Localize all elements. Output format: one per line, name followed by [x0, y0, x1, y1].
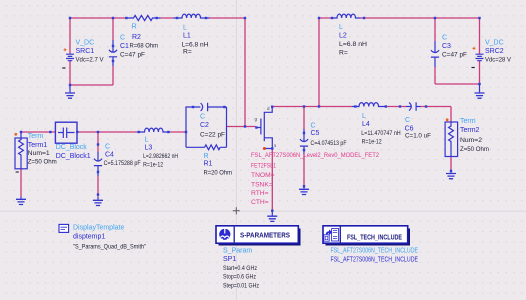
capacitor C4 — [94, 152, 102, 176]
svg-text:R=: R= — [339, 49, 348, 56]
SRC1 minus mark — [62, 67, 65, 69]
Term1 minus mark — [16, 171, 19, 173]
wire term1 bottom stem — [20, 169, 22, 197]
FSL_TECH_INCLUDE box — [323, 226, 410, 246]
svg-text:C=22 pF: C=22 pF — [200, 132, 225, 139]
svg-text:DisplayTemplate: DisplayTemplate — [73, 225, 124, 232]
inductor L1 — [174, 14, 210, 18]
svg-text:Term1: Term1 — [28, 142, 48, 149]
wire top-right rail — [319, 17, 480, 19]
wire SRC2 vertical — [479, 18, 481, 84]
svg-text:Z=50 Ohm: Z=50 Ohm — [460, 146, 489, 153]
DisplayTemplate icon — [59, 224, 69, 232]
svg-text:L=6.8 nH: L=6.8 nH — [339, 41, 367, 48]
svg-text:CTH=: CTH= — [251, 199, 269, 206]
svg-text:Vdc=28 V: Vdc=28 V — [485, 57, 511, 64]
capacitor C6 — [406, 102, 421, 111]
svg-text:R2: R2 — [132, 34, 141, 41]
resistor R2 — [126, 15, 161, 20]
svg-text:R=20 Ohm: R=20 Ohm — [204, 170, 233, 177]
S-PARAMETERS controller box — [216, 226, 301, 246]
wire C1 top stem — [112, 18, 114, 40]
wire top-left rail — [70, 17, 245, 19]
svg-text:R=1e-12: R=1e-12 — [362, 138, 382, 145]
svg-text:FET2FSL1: FET2FSL1 — [251, 163, 276, 170]
svg-text:C5: C5 — [311, 130, 320, 137]
svg-text:R=68 Ohm: R=68 Ohm — [130, 42, 159, 49]
svg-text:L=6.8 nH: L=6.8 nH — [182, 42, 209, 49]
ground C4 — [97, 197, 99, 200]
Term1 port — [15, 138, 27, 169]
wire input line — [21, 131, 186, 133]
capacitor C2 — [201, 103, 208, 112]
wire bias bottom left — [70, 66, 113, 85]
wire C3 stems — [434, 18, 436, 84]
svg-text:Num=1: Num=1 — [28, 150, 50, 157]
svg-text:C=1.0 uF: C=1.0 uF — [405, 133, 431, 140]
svg-text:FSL_AFT27S006N_TECH_INCLUDE: FSL_AFT27S006N_TECH_INCLUDE — [331, 257, 419, 264]
svg-text:RTH=: RTH= — [251, 190, 269, 197]
svg-text:L: L — [362, 113, 366, 120]
V_DC source SRC1 battery — [66, 54, 74, 61]
ground SRC1 — [69, 85, 71, 92]
svg-text:R=: R= — [183, 49, 192, 56]
SRC1 plus mark — [64, 48, 67, 51]
svg-text:Term2: Term2 — [460, 127, 480, 134]
svg-text:S-PARAMETERS: S-PARAMETERS — [240, 231, 290, 240]
SRC2 plus mark — [473, 47, 476, 50]
svg-text:R: R — [132, 24, 137, 31]
svg-text:C=47 pF: C=47 pF — [442, 52, 467, 59]
RC feedback frame — [186, 107, 227, 147]
V_DC source SRC2 battery — [476, 54, 484, 61]
svg-text:R=1e-12: R=1e-12 — [143, 162, 163, 169]
wire C5 stems — [303, 107, 305, 187]
svg-text:DC_Block1: DC_Block1 — [56, 153, 91, 160]
svg-text:DC_Block: DC_Block — [56, 144, 88, 151]
svg-text:C: C — [200, 114, 205, 121]
Term2 port — [445, 122, 458, 157]
svg-text:L3: L3 — [145, 145, 153, 152]
svg-text:Num=2: Num=2 — [460, 137, 482, 144]
svg-text:L=2.982662 nH: L=2.982662 nH — [143, 153, 178, 160]
inductor L3 — [137, 128, 170, 132]
svg-text:Stop=0.6 GHz: Stop=0.6 GHz — [223, 274, 257, 281]
svg-text:C4: C4 — [105, 151, 114, 158]
svg-text:TNOM=: TNOM= — [251, 172, 275, 179]
svg-text:V_DC: V_DC — [485, 40, 504, 47]
svg-text:Start=0.4 GHz: Start=0.4 GHz — [223, 265, 258, 272]
wire FET source down — [271, 149, 273, 211]
DC_Block DC_Block1 — [55, 122, 77, 143]
svg-text:C3: C3 — [442, 43, 451, 50]
svg-text:C: C — [311, 123, 316, 130]
svg-text:C: C — [105, 143, 110, 150]
svg-text:FSL_AFT27S006N_Level2_Rev0_MOD: FSL_AFT27S006N_Level2_Rev0_MODEL_FET2 — [251, 152, 379, 159]
wire drain feed vertical — [318, 18, 320, 107]
wire bias bottom right — [435, 83, 480, 85]
wire drain line — [272, 107, 451, 123]
svg-text:SRC1: SRC1 — [76, 48, 95, 55]
svg-text:Term: Term — [28, 133, 44, 140]
svg-text:Vdc=2.7 V: Vdc=2.7 V — [76, 57, 104, 64]
svg-text:L1: L1 — [183, 33, 191, 40]
svg-text:SP1: SP1 — [223, 256, 236, 263]
svg-text:FSL_AFT27S006N_TECH_INCLUDE: FSL_AFT27S006N_TECH_INCLUDE — [331, 248, 419, 255]
inductor L4 — [352, 103, 386, 107]
svg-text:C: C — [120, 35, 125, 42]
svg-text:C: C — [442, 35, 447, 42]
svg-text:L4: L4 — [362, 121, 370, 128]
svg-text:C2: C2 — [200, 122, 209, 129]
capacitor C5 — [300, 129, 308, 154]
wire C4 stems — [97, 132, 99, 197]
inductor L2 — [332, 14, 361, 18]
svg-text:TSNK=: TSNK= — [251, 181, 273, 188]
ground SRC2 — [479, 84, 481, 92]
capacitor C1 — [109, 40, 117, 66]
svg-text:L=11.470747 nH: L=11.470747 nH — [361, 130, 401, 137]
svg-text:Term: Term — [460, 118, 476, 125]
svg-text:V_DC: V_DC — [76, 40, 95, 47]
svg-text:L2: L2 — [339, 33, 347, 40]
svg-text:S_Param: S_Param — [223, 248, 252, 255]
svg-text:Step=0.01 GHz: Step=0.01 GHz — [223, 283, 260, 290]
ground FET source — [271, 211, 273, 216]
FET pin 1 red dot — [263, 147, 266, 150]
svg-text:"S_Params_Quad_dB_Smith": "S_Params_Quad_dB_Smith" — [73, 244, 147, 251]
svg-text:FSL_TECH_INCLUDE: FSL_TECH_INCLUDE — [347, 235, 402, 242]
SRC2 minus mark — [472, 67, 475, 69]
svg-text:C1: C1 — [120, 43, 129, 50]
ground C5 — [303, 186, 305, 188]
svg-text:R1: R1 — [204, 161, 213, 168]
svg-text:SRC2: SRC2 — [485, 48, 504, 55]
svg-text:C=5.175288 pF: C=5.175288 pF — [104, 160, 141, 167]
svg-text:C: C — [405, 117, 410, 124]
svg-text:Z=50 Ohm: Z=50 Ohm — [28, 159, 57, 166]
resistor R1 — [205, 145, 221, 150]
ground Term1 — [20, 197, 22, 199]
svg-text:C=4.074513 pF: C=4.074513 pF — [311, 140, 347, 147]
svg-text:R: R — [204, 153, 209, 160]
wire term2 bottom stem — [450, 157, 452, 171]
svg-text:disptemp1: disptemp1 — [73, 233, 105, 240]
capacitor C3 — [431, 41, 439, 67]
svg-text:L: L — [145, 137, 149, 144]
ground Term2 — [450, 171, 452, 173]
transistor FET2FSL1 — [256, 107, 273, 149]
Term1 pin1 orange dot — [14, 133, 17, 136]
Term2 pin1 orange dot — [446, 118, 449, 121]
wire SRC1 vertical — [69, 18, 71, 85]
wire gate feed vertical — [244, 18, 246, 127]
svg-text:L: L — [339, 24, 343, 31]
svg-text:C=47 pF: C=47 pF — [120, 51, 145, 58]
wire gate line — [227, 126, 256, 128]
svg-text:L: L — [183, 25, 187, 32]
